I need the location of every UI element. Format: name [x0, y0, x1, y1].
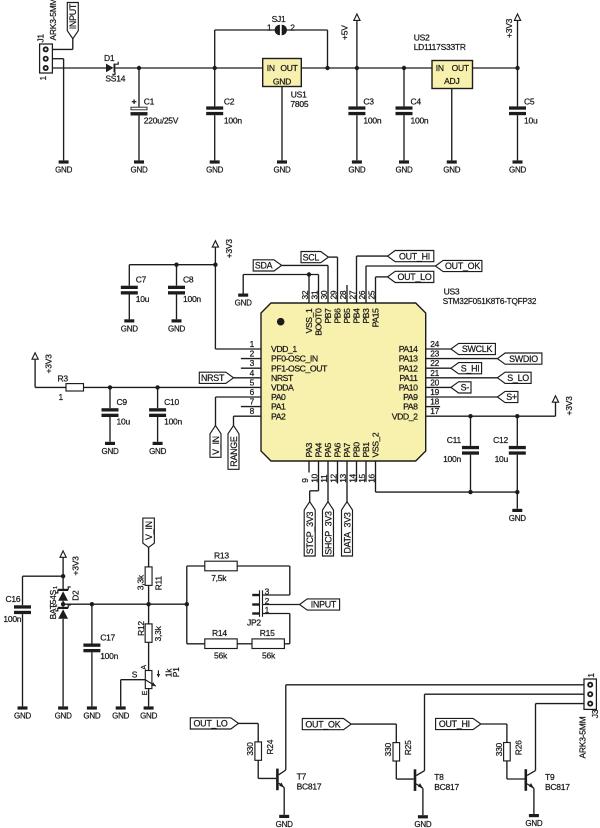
svg-text:3,3k: 3,3k — [135, 574, 145, 590]
svg-text:GND: GND — [101, 447, 119, 456]
svg-text:T8: T8 — [434, 772, 444, 782]
svg-text:100n: 100n — [183, 294, 201, 304]
svg-text:1: 1 — [250, 339, 255, 349]
svg-text:100n: 100n — [224, 115, 242, 125]
svg-text:PA5: PA5 — [323, 442, 333, 457]
svg-text:PB0: PB0 — [352, 442, 362, 458]
svg-text:VDD_2: VDD_2 — [392, 411, 418, 421]
svg-text:J3: J3 — [590, 709, 600, 718]
svg-text:PA14: PA14 — [399, 344, 418, 354]
svg-text:VDD_1: VDD_1 — [271, 344, 297, 354]
svg-text:7805: 7805 — [290, 99, 308, 109]
svg-text:SS14: SS14 — [105, 74, 125, 84]
svg-text:SHCP_3V3: SHCP_3V3 — [323, 511, 333, 555]
svg-text:PA11: PA11 — [399, 373, 418, 383]
svg-text:J1: J1 — [36, 34, 46, 43]
svg-text:PA9: PA9 — [403, 392, 418, 402]
svg-text:D2: D2 — [71, 590, 81, 601]
svg-text:24: 24 — [430, 339, 439, 349]
svg-text:3: 3 — [250, 358, 255, 368]
svg-text:GND: GND — [83, 711, 101, 720]
svg-text:C17: C17 — [100, 632, 115, 642]
svg-text:5: 5 — [250, 377, 255, 387]
svg-text:330: 330 — [383, 743, 393, 757]
svg-text:PB1: PB1 — [361, 442, 371, 458]
svg-text:OUT_LO: OUT_LO — [194, 719, 228, 729]
svg-text:RANGE: RANGE — [229, 436, 239, 467]
svg-text:10u: 10u — [495, 454, 509, 464]
svg-text:100n: 100n — [443, 454, 461, 464]
svg-text:NRST: NRST — [271, 373, 294, 383]
svg-text:A: A — [141, 665, 148, 670]
svg-text:7,5k: 7,5k — [211, 573, 227, 583]
svg-text:PA15: PA15 — [371, 308, 381, 327]
svg-text:SCL: SCL — [303, 252, 320, 262]
svg-text:C9: C9 — [117, 397, 128, 407]
svg-text:NRST: NRST — [201, 373, 225, 383]
svg-text:PA6: PA6 — [333, 442, 343, 457]
svg-text:GND: GND — [149, 447, 167, 456]
svg-text:S: S — [132, 669, 138, 679]
svg-text:IN: IN — [436, 63, 444, 73]
svg-text:C11: C11 — [447, 435, 462, 445]
svg-text:GND: GND — [443, 165, 461, 174]
svg-text:PA13: PA13 — [399, 354, 418, 364]
svg-text:56k: 56k — [214, 650, 228, 660]
svg-text:PA10: PA10 — [399, 383, 418, 393]
svg-text:SJ1: SJ1 — [272, 14, 286, 24]
svg-text:DATA_3V3: DATA_3V3 — [342, 512, 352, 553]
svg-text:BOOT0: BOOT0 — [314, 308, 324, 336]
svg-text:PA0: PA0 — [271, 392, 286, 402]
svg-text:330: 330 — [494, 742, 504, 756]
svg-text:D1: D1 — [104, 53, 115, 63]
svg-text:1: 1 — [59, 392, 64, 402]
svg-text:23: 23 — [430, 349, 439, 359]
svg-text:+5V: +5V — [340, 25, 350, 40]
svg-text:ARK3-5MM: ARK3-5MM — [578, 716, 588, 758]
svg-text:1: 1 — [267, 23, 272, 33]
svg-text:SWCLK: SWCLK — [462, 344, 493, 354]
svg-text:PA1: PA1 — [271, 402, 286, 412]
svg-text:18: 18 — [430, 397, 439, 407]
svg-text:GND: GND — [130, 165, 148, 174]
svg-text:GND: GND — [395, 165, 413, 174]
svg-text:+3V3: +3V3 — [224, 239, 234, 259]
svg-text:10u: 10u — [136, 294, 150, 304]
svg-text:100n: 100n — [100, 651, 118, 661]
svg-text:GND: GND — [55, 165, 73, 174]
svg-text:PA3: PA3 — [304, 442, 314, 457]
svg-text:8: 8 — [250, 406, 255, 416]
svg-text:2: 2 — [290, 23, 295, 33]
svg-text:US3: US3 — [444, 287, 460, 297]
svg-text:GND: GND — [206, 165, 224, 174]
svg-text:V_IN: V_IN — [211, 436, 221, 455]
svg-text:R26: R26 — [514, 740, 524, 755]
svg-text:ADJ: ADJ — [444, 76, 459, 86]
svg-text:220u/25V: 220u/25V — [144, 116, 179, 126]
svg-text:STM32F051K8T6-TQFP32: STM32F051K8T6-TQFP32 — [443, 296, 537, 306]
svg-text:US1: US1 — [291, 90, 307, 100]
svg-text:SWDIO: SWDIO — [509, 354, 538, 364]
svg-text:+3V3: +3V3 — [71, 556, 81, 576]
svg-text:GND: GND — [112, 711, 130, 720]
svg-text:T9: T9 — [545, 772, 555, 782]
svg-text:56k: 56k — [262, 650, 276, 660]
svg-text:JP2: JP2 — [247, 617, 261, 627]
svg-text:VSS_1: VSS_1 — [304, 308, 314, 333]
svg-text:PA4: PA4 — [314, 442, 324, 457]
svg-text:10u: 10u — [117, 417, 131, 427]
svg-text:1: 1 — [53, 586, 59, 589]
svg-text:GND: GND — [235, 299, 253, 308]
svg-text:10u: 10u — [524, 115, 538, 125]
svg-text:GND: GND — [121, 324, 139, 333]
svg-text:22: 22 — [430, 358, 439, 368]
svg-text:R15: R15 — [260, 628, 275, 638]
svg-text:T7: T7 — [297, 771, 307, 781]
svg-text:R13: R13 — [214, 551, 229, 561]
svg-text:C16: C16 — [5, 594, 20, 604]
svg-text:VDDA: VDDA — [271, 383, 294, 393]
svg-text:GND: GND — [276, 820, 294, 828]
svg-text:PA12: PA12 — [399, 363, 418, 373]
svg-text:+3V3: +3V3 — [564, 396, 574, 416]
svg-text:V_IN: V_IN — [144, 521, 154, 540]
svg-text:GND: GND — [14, 711, 32, 720]
svg-text:R24: R24 — [265, 739, 275, 754]
svg-text:E: E — [142, 690, 149, 695]
svg-text:SDA: SDA — [255, 261, 273, 271]
svg-text:1: 1 — [38, 76, 48, 81]
svg-text:+3V3: +3V3 — [44, 354, 54, 374]
svg-text:C7: C7 — [136, 275, 147, 285]
svg-text:PB6: PB6 — [333, 308, 343, 324]
svg-text:1: 1 — [586, 673, 596, 678]
svg-text:7: 7 — [250, 397, 255, 407]
svg-text:OUT_HI: OUT_HI — [439, 719, 470, 729]
svg-text:P1: P1 — [171, 667, 181, 677]
svg-text:PF1-OSC_OUT: PF1-OSC_OUT — [271, 363, 328, 373]
svg-text:6: 6 — [250, 387, 255, 397]
svg-text:PF0-OSC_IN: PF0-OSC_IN — [271, 354, 318, 364]
svg-text:OUT_OK: OUT_OK — [305, 719, 340, 729]
svg-text:GND: GND — [55, 711, 73, 720]
svg-text:GND: GND — [140, 711, 158, 720]
svg-text:C8: C8 — [183, 275, 194, 285]
svg-text:S_HI: S_HI — [461, 363, 480, 373]
svg-text:R11: R11 — [154, 576, 164, 591]
svg-text:OUT_OK: OUT_OK — [445, 261, 480, 271]
svg-text:IN: IN — [267, 63, 275, 73]
svg-text:VSS_2: VSS_2 — [371, 432, 381, 457]
svg-text:R12: R12 — [136, 621, 146, 636]
svg-text:S-: S- — [461, 383, 470, 393]
svg-text:PA7: PA7 — [342, 442, 352, 457]
svg-text:19: 19 — [430, 387, 439, 397]
svg-text:17: 17 — [430, 406, 439, 416]
svg-text:C12: C12 — [493, 435, 508, 445]
svg-text:100n: 100n — [3, 614, 21, 624]
svg-text:3,3k: 3,3k — [153, 625, 163, 641]
svg-text:100n: 100n — [363, 115, 381, 125]
svg-text:PA2: PA2 — [271, 411, 286, 421]
svg-text:INPUT: INPUT — [68, 3, 78, 29]
svg-text:PB3: PB3 — [361, 308, 371, 324]
svg-text:PB4: PB4 — [352, 308, 362, 324]
svg-text:OUT: OUT — [280, 63, 297, 73]
svg-text:R3: R3 — [58, 373, 69, 383]
svg-text:BC817: BC817 — [545, 782, 570, 792]
svg-text:OUT_HI: OUT_HI — [399, 251, 430, 261]
svg-text:100n: 100n — [411, 115, 429, 125]
svg-text:21: 21 — [430, 368, 439, 378]
svg-text:C4: C4 — [411, 97, 422, 107]
svg-text:4: 4 — [250, 368, 255, 378]
svg-text:GND: GND — [509, 514, 527, 523]
svg-text:S+: S+ — [506, 392, 517, 402]
svg-text:GND: GND — [414, 820, 432, 828]
svg-text:PB7: PB7 — [323, 308, 333, 324]
svg-text:C10: C10 — [164, 397, 179, 407]
svg-text:GND: GND — [273, 165, 291, 174]
svg-text:2: 2 — [53, 604, 59, 607]
svg-text:C1: C1 — [144, 96, 155, 106]
svg-text:ARK3-5MM: ARK3-5MM — [48, 0, 58, 41]
svg-text:C3: C3 — [363, 97, 374, 107]
svg-text:LD1117S33TR: LD1117S33TR — [414, 42, 466, 52]
svg-text:GND: GND — [525, 819, 543, 828]
svg-text:C5: C5 — [524, 97, 535, 107]
svg-text:INPUT: INPUT — [311, 600, 337, 610]
svg-text:GND: GND — [168, 324, 186, 333]
svg-text:GND: GND — [509, 165, 527, 174]
svg-text:S_LO: S_LO — [507, 373, 529, 383]
svg-text:PA8: PA8 — [403, 402, 418, 412]
svg-text:PB5: PB5 — [342, 308, 352, 324]
svg-text:BC817: BC817 — [434, 782, 459, 792]
svg-text:9: 9 — [300, 478, 310, 483]
svg-text:BC817: BC817 — [297, 781, 322, 791]
svg-text:R14: R14 — [212, 628, 227, 638]
svg-text:+3V3: +3V3 — [504, 18, 514, 38]
svg-text:100n: 100n — [164, 417, 182, 427]
svg-text:330: 330 — [245, 742, 255, 756]
svg-text:R25: R25 — [403, 740, 413, 755]
svg-text:GND: GND — [348, 165, 366, 174]
svg-text:STCP_3V3: STCP_3V3 — [305, 511, 315, 554]
svg-text:2: 2 — [250, 349, 255, 359]
svg-text:C2: C2 — [224, 97, 235, 107]
svg-text:OUT: OUT — [452, 63, 469, 73]
svg-text:20: 20 — [430, 377, 439, 387]
svg-text:GND: GND — [273, 76, 291, 86]
svg-text:OUT_LO: OUT_LO — [397, 272, 431, 282]
